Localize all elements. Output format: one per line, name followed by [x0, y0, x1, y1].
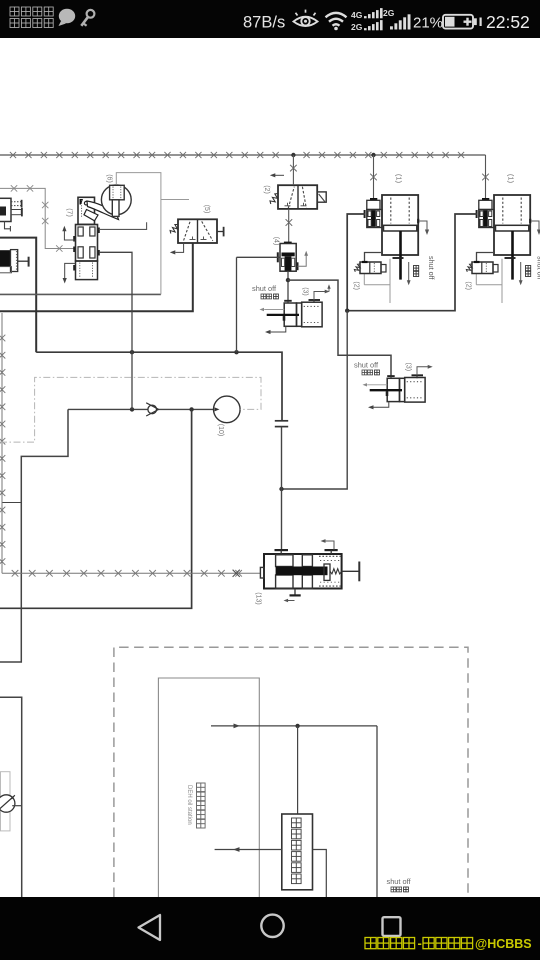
bottom port of valve (13) [294, 589, 296, 596]
exhaust arrow of valve (2) [273, 174, 285, 176]
top port 1 of valve (13) [275, 549, 289, 551]
node: junction at (281.5,489) [279, 487, 283, 491]
wire: line y=294 to detail leader [0, 293, 161, 295]
wifi icon [326, 13, 347, 17]
svg-text:DEH oil station: DEH oil station [186, 785, 192, 825]
svg-text:21%: 21% [413, 15, 443, 32]
nav recents square [383, 917, 401, 936]
key icon [87, 10, 95, 18]
wire: pump discharge pipe (left block) [0, 238, 36, 353]
top port 2 with arrow [325, 549, 338, 551]
status bar [0, 0, 540, 38]
svg-text:2G: 2G [351, 22, 363, 32]
valve V7: manual trip throttle valve [78, 197, 95, 224]
actuator C3: shut-off piston actuator [284, 303, 296, 326]
wire: supply drop to assembly 2 [485, 155, 487, 198]
piston rod [399, 231, 402, 280]
enclosure: DEH oil station dashed boundary [114, 647, 468, 897]
spring seat T of valve (13) [342, 570, 360, 572]
wire: bottom drain line with X marks to valve (13) [2, 572, 261, 574]
svg-text:(3): (3) [302, 287, 309, 296]
check valve [148, 405, 157, 414]
node: junction above module [295, 724, 299, 728]
node: junction under valve (4) [286, 278, 290, 282]
wire: small connector [2, 502, 21, 504]
navigation bar [0, 897, 540, 960]
cylinder block [494, 195, 530, 255]
left port tick [364, 210, 366, 218]
svg-text:shut off: shut off [252, 284, 277, 293]
svg-text:@HCBBS: @HCBBS [475, 937, 532, 951]
ports of valve (7) [73, 236, 75, 242]
wire: main supply line with hose-crimp X marks [0, 154, 486, 156]
wire: left vertical drain with X marks [1, 313, 3, 573]
nav back triangle [139, 915, 161, 940]
wire: valve (4) to manifold [237, 256, 281, 258]
cylinder bottom port bar [393, 257, 404, 259]
cylinder bottom port bar [505, 257, 516, 259]
lower body of valve (7) [76, 261, 98, 280]
wire: supply arrow into servo module [211, 725, 377, 727]
wire: return pipe bottom left [0, 697, 22, 897]
enclosure: DEH oil tank box [158, 678, 259, 897]
wire: x=347 down to y=489 [282, 311, 348, 489]
left port of valve (13) [260, 567, 264, 578]
wire: return arrow from module [215, 849, 282, 851]
svg-text:shut off: shut off [354, 361, 379, 370]
battery icon charging [443, 15, 473, 29]
actuator C3: shut-off piston actuator [387, 378, 399, 401]
pilot arrow of valve (4) [298, 255, 307, 267]
svg-text:(1): (1) [507, 174, 516, 184]
wire: line y=311 to valve (5) [0, 243, 193, 311]
wire: manifold line y=352 [36, 352, 282, 421]
valve: pressure relief valve at left edge [0, 198, 11, 221]
drain arrow down at valve (7) [65, 263, 76, 278]
eye icon [294, 17, 318, 26]
solenoid shut-off valve (2) [365, 253, 383, 263]
module: electro-hydraulic servo module box [282, 814, 313, 890]
wire: junction down to valve (13) [281, 489, 283, 550]
wire: left suction path [0, 409, 68, 662]
body of valve (7) [76, 225, 98, 262]
wire: x=281.5 from orifice to junction [281, 427, 283, 489]
svg-text:4G: 4G [351, 10, 363, 20]
svg-text:-: - [418, 936, 422, 951]
wire: down right side [376, 726, 378, 897]
valve V5: 3/2 directional valve [178, 219, 217, 243]
svg-text:(13): (13) [255, 592, 262, 604]
carrier text 中国电信 / 中国移动 [10, 7, 19, 16]
进汽 label rotated [526, 266, 531, 271]
svg-text:(2): (2) [263, 185, 270, 194]
wire: pipe to shut-off actuator (3b) [288, 280, 391, 376]
进汽 label rotated [414, 266, 419, 271]
orifice / union symbol on x=281.5 [275, 420, 288, 422]
valve V13: pilot operated shut-off valve [264, 554, 342, 589]
message bubble icon [59, 9, 75, 23]
spring of valve (2) [270, 194, 278, 205]
gauge: pressure indicator at left edge [1, 772, 11, 831]
servo valve pilot stage [370, 198, 377, 201]
svg-text:22:52: 22:52 [486, 12, 530, 32]
servo valve pilot stage [482, 198, 489, 201]
label DEH油站 rotated [197, 783, 206, 792]
svg-text:(2): (2) [464, 281, 471, 290]
node: branch to solenoid valve (2) [291, 153, 295, 157]
actuator stem of valve (5) [217, 231, 224, 233]
leader line from detail circle [116, 173, 161, 295]
svg-text:(4): (4) [272, 237, 279, 246]
drain arrow of valve (5) [175, 243, 183, 252]
svg-text:2G: 2G [383, 8, 395, 18]
watermark 化海川流-工业社群@HCBBS [365, 938, 376, 949]
left port tick [476, 210, 478, 218]
wire: module supply drop [297, 726, 299, 814]
node: junction x=132 y=409 [130, 407, 134, 411]
svg-text:shut off: shut off [536, 256, 540, 279]
svg-text:87B/s: 87B/s [243, 14, 285, 32]
lever of valve (7) [87, 201, 119, 220]
wire: supply drop to assembly 1 [373, 155, 375, 198]
drain arrow up at valve (7) [64, 229, 75, 240]
node: junction x=191.6 y=409 [189, 407, 193, 411]
valve V2: 3/2 solenoid valve [278, 185, 317, 209]
valve: solenoid cartridge at left edge [0, 250, 11, 266]
piston [384, 225, 417, 231]
solenoid box of valve (2) [317, 192, 326, 202]
pump circle (10) [214, 396, 241, 423]
cylinder block [382, 195, 418, 255]
svg-text:(6): (6) [106, 174, 113, 183]
wire: valve (4) down to component (3) [287, 271, 289, 301]
wire: suction line y=409 [68, 408, 148, 410]
node: junction x=236.5 on y=352 [234, 350, 238, 354]
wire: control oil pipe to both servo valves [347, 214, 365, 311]
svg-text:(3): (3) [405, 363, 412, 372]
svg-text:(5): (5) [203, 205, 210, 214]
valve V4: cartridge check valve [284, 242, 292, 244]
wire: case drain dash-dot line [0, 377, 261, 442]
spring of valve (5) [170, 225, 178, 234]
gray drain line [501, 259, 503, 303]
vent arrow near pipe [328, 286, 330, 292]
node: branch to servo assembly 1 [371, 153, 375, 157]
svg-text:(2): (2) [352, 281, 359, 290]
piston [496, 225, 529, 231]
nav home circle [261, 915, 283, 937]
rod load arrow and labels [520, 262, 522, 281]
svg-text:(1): (1) [395, 174, 404, 184]
svg-text:(7): (7) [66, 208, 73, 217]
wire: x=132 from valve (7) [99, 252, 132, 409]
right port with down arrow [529, 219, 531, 223]
wire: valve (2) to valve (4) [288, 209, 290, 242]
detail circle (6) latch detail [101, 185, 131, 215]
piston rod [511, 231, 514, 280]
right port with down arrow [417, 219, 419, 223]
svg-text:(10): (10) [217, 424, 224, 436]
rod load arrow and labels [408, 262, 410, 281]
node: junction x=132 on y=352 [130, 350, 134, 354]
wire: valve (7) upper right port line [99, 222, 147, 229]
wire: supply drop to valve (2) [292, 155, 294, 185]
wire: pilot line to trip valve (7) [0, 188, 74, 248]
solenoid shut-off valve (2) [477, 253, 495, 263]
wire: gauge to return pipe [12, 805, 22, 807]
pilot section of valve (13) [319, 555, 342, 557]
ports of valve (4) [277, 252, 279, 262]
svg-text:shut off: shut off [427, 256, 436, 279]
wire: module right outlet [313, 850, 327, 898]
gray drain line [389, 259, 391, 303]
wire: drop from pump junction [0, 409, 192, 608]
svg-text:shut off: shut off [387, 877, 412, 886]
node: junction at (347,311) [345, 309, 349, 313]
